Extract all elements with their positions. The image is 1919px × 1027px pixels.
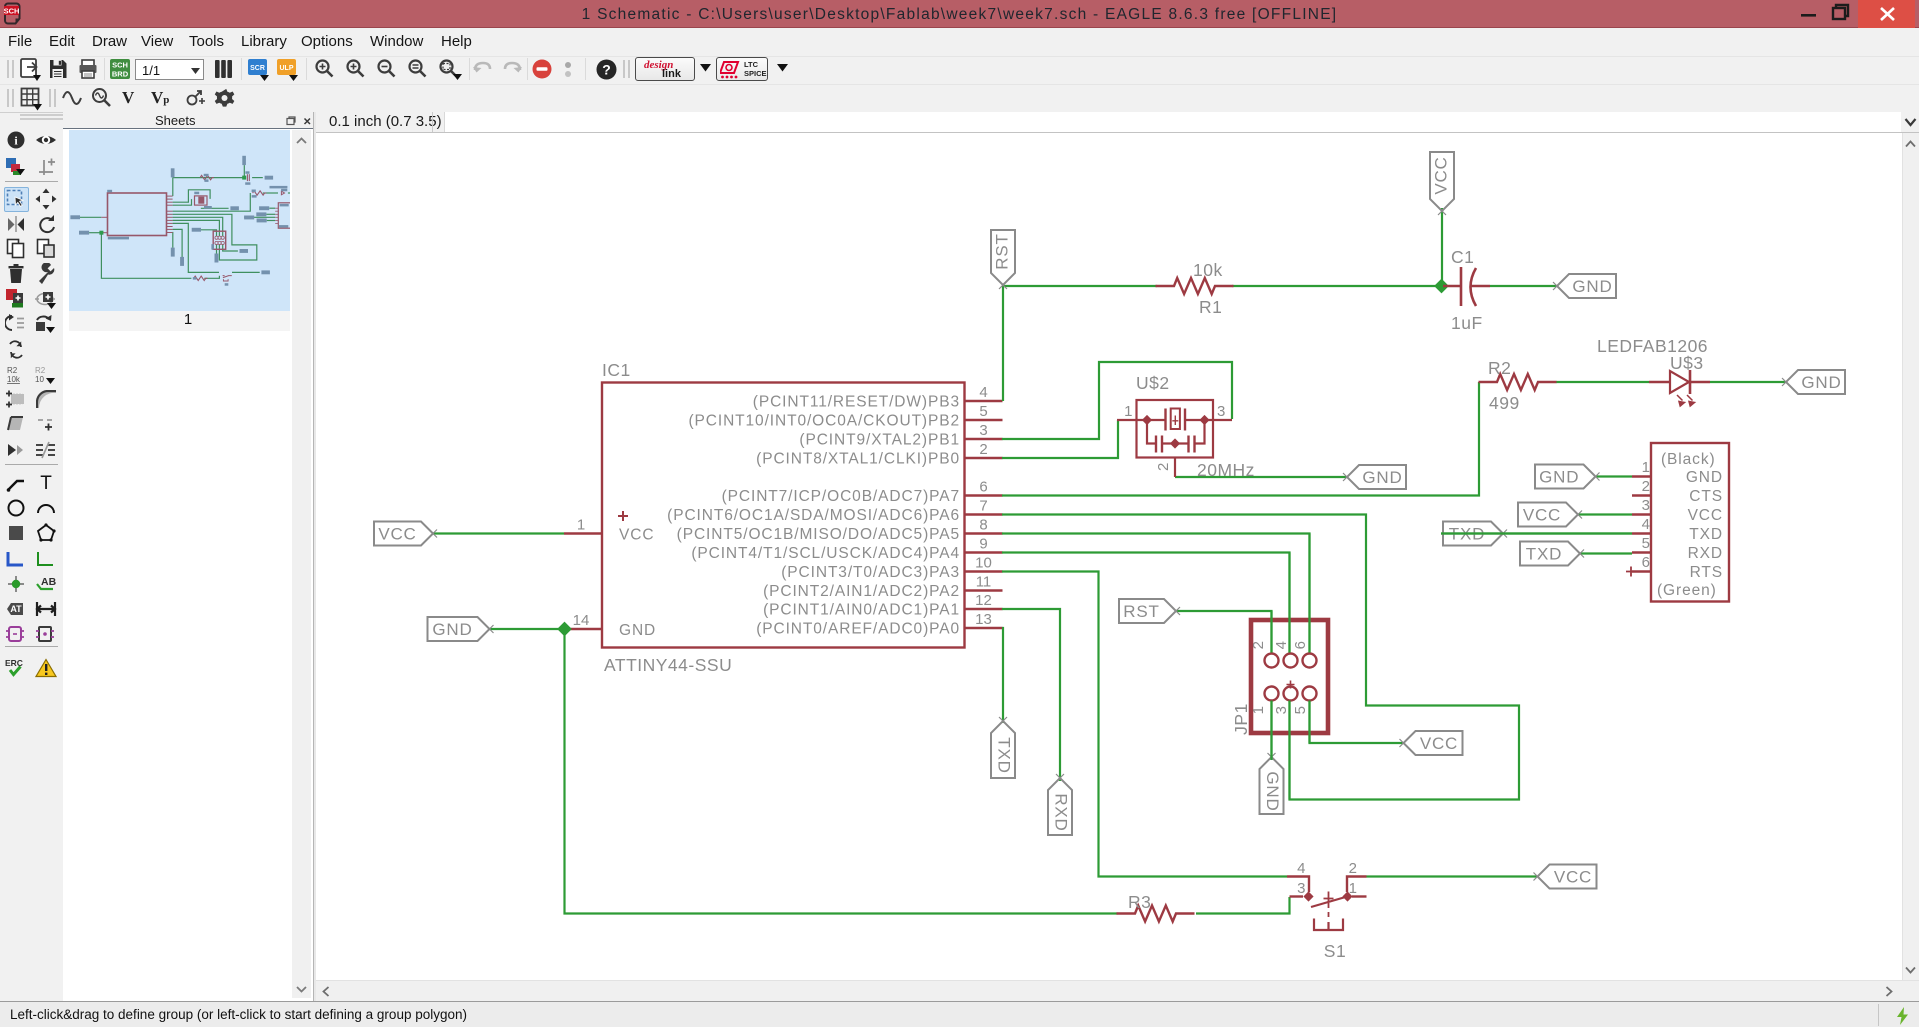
- pin 13 IC1 (PCINT0/AREF/ADC0)PA0: [756, 611, 1002, 638]
- flag TXD (FTDI pin5): [1520, 542, 1584, 566]
- svg-text:13: 13: [975, 611, 992, 628]
- supply flag GND (C1): [1553, 274, 1616, 298]
- svg-text:6: 6: [1642, 554, 1650, 571]
- left tool mirror: [6, 214, 26, 234]
- left tool delete: [7, 263, 25, 285]
- svg-text:GND: GND: [1263, 771, 1282, 811]
- wire net GND: resonator pin2 to flag: [1175, 476, 1346, 478]
- supply flag VCC (top): [1430, 152, 1454, 215]
- wire net GND down to R3: [565, 629, 1118, 914]
- svg-text:GND: GND: [1801, 373, 1841, 392]
- pin 3 FTDI VCC: [1632, 497, 1723, 524]
- svg-text:1: 1: [1642, 459, 1650, 476]
- flag TXD (FTDI pin4): [1443, 522, 1507, 546]
- svg-text:(PCINT6/OC1A/SDA/MOSI/ADC6)PA6: (PCINT6/OC1A/SDA/MOSI/ADC6)PA6: [667, 507, 960, 524]
- svg-text:(Black): (Black): [1661, 451, 1716, 468]
- toolbar zoom fit button: [314, 58, 336, 80]
- svg-text:R1: R1: [1199, 297, 1222, 317]
- supply flag GND (resonator): [1343, 465, 1406, 489]
- pin 6 FTDI plus mark: [1626, 567, 1636, 577]
- svg-text:(PCINT1/AIN0/ADC1)PA1: (PCINT1/AIN0/ADC1)PA1: [763, 602, 960, 619]
- left command toolbar: [0, 112, 63, 1002]
- wire wire RST drop into JP1 pin2 (overlay): [1270, 611, 1272, 653]
- left tool replace: [5, 312, 27, 334]
- svg-text:R2: R2: [1488, 358, 1511, 378]
- svg-text:VCC: VCC: [1420, 734, 1458, 753]
- wire wire SCK drop into JP1 pin4 (overlay): [1288, 553, 1290, 653]
- svg-text:JP1: JP1: [1231, 703, 1251, 735]
- svg-text:S1: S1: [1324, 941, 1346, 961]
- toolbar save button: [48, 58, 68, 80]
- left tool wire/line: [6, 473, 26, 493]
- pin 10 IC1 (PCINT3/T0/ADC3)PA3: [781, 555, 1002, 582]
- svg-text:7: 7: [979, 498, 987, 515]
- flag RST (top): [991, 230, 1015, 289]
- left toolbar separator 3: [5, 646, 58, 647]
- left toolbar separator 2: [5, 464, 58, 465]
- left tool pinswap: [6, 339, 26, 361]
- svg-text:(PCINT4/T1/SCL/USCK/ADC4)PA4: (PCINT4/T1/SCL/USCK/ADC4)PA4: [691, 545, 960, 562]
- wire net VCC: flag to junction: [1441, 208, 1443, 286]
- svg-text:ATTINY44-SSU: ATTINY44-SSU: [604, 655, 732, 675]
- svg-text:4: 4: [1297, 860, 1306, 877]
- svg-text:5: 5: [979, 403, 987, 420]
- wire net PA7 to R2: [1002, 382, 1479, 496]
- pin 4 IC1 (PCINT11/RESET/DW)PB3: [753, 384, 1003, 411]
- left tool smash: [5, 389, 27, 409]
- left tool invoke: [6, 441, 26, 459]
- svg-text:TXD: TXD: [1689, 526, 1723, 543]
- wire net S1 pin2 to VCC flag: [1367, 875, 1538, 877]
- svg-text:AT: AT: [10, 604, 22, 614]
- wire net TXD to FTDI pin4: [1441, 532, 1632, 534]
- toolbar redo button (disabled): [501, 60, 523, 80]
- left tool rotate: [36, 214, 56, 234]
- svg-text:4: 4: [979, 384, 987, 401]
- pin 11 IC1 (PCINT2/AIN1/ADC2)PA2: [763, 574, 1002, 601]
- svg-text:LEDFAB1206: LEDFAB1206: [1597, 336, 1708, 356]
- resistor R3: [1117, 906, 1195, 922]
- left tool slant: [6, 415, 26, 433]
- sheets scrollbar: [292, 130, 311, 998]
- title bar: [0, 0, 1919, 28]
- left toolbar separator 1: [5, 181, 58, 182]
- left tool label: [35, 574, 57, 594]
- pin 7 IC1 (PCINT6/OC1A/SDA/MOSI/ADC6)PA6: [667, 498, 1002, 525]
- svg-text:R3: R3: [1128, 892, 1151, 912]
- left tool text: [37, 473, 55, 493]
- svg-text:AB: AB: [41, 576, 57, 588]
- left tool ERC: [4, 657, 28, 679]
- wire net R2 to LED: [1556, 381, 1649, 383]
- toolbar settings gear button: [214, 87, 238, 111]
- left tool split: [36, 416, 56, 432]
- wire net JP1 pin5 to VCC flag: [1310, 701, 1404, 744]
- toolbar zoom in button: [345, 58, 367, 80]
- wire net RST: down to pin4: [1002, 286, 1004, 401]
- svg-text:(PCINT9/XTAL2)PB1: (PCINT9/XTAL2)PB1: [799, 432, 960, 449]
- canvas: [316, 133, 1902, 980]
- svg-text:VCC: VCC: [1431, 156, 1450, 194]
- wire net XTAL2: PB1 to resonator pin3: [1002, 362, 1232, 439]
- svg-text:T: T: [40, 473, 52, 493]
- supply flag VCC (FTDI): [1518, 503, 1582, 527]
- left tool align: [35, 441, 57, 459]
- svg-text:SCH: SCH: [112, 61, 128, 70]
- svg-text:GND: GND: [1362, 468, 1402, 487]
- svg-text:3: 3: [1217, 403, 1226, 420]
- junction GND pin14: [557, 622, 572, 637]
- svg-text:VCC: VCC: [619, 527, 654, 544]
- coordinate bar: [316, 112, 1919, 133]
- svg-text:(PCINT7/ICP/OC0B/ADC7)PA7: (PCINT7/ICP/OC0B/ADC7)PA7: [722, 488, 960, 505]
- wire net XTAL1: PB0 to resonator pin1: [1002, 420, 1118, 458]
- svg-text:?: ?: [602, 62, 611, 78]
- svg-text:(PCINT0/AREF/ADC0)PA0: (PCINT0/AREF/ADC0)PA0: [756, 621, 960, 638]
- panel divider: [313, 112, 316, 1002]
- svg-text:TXD: TXD: [1526, 545, 1562, 564]
- pin 3 IC1 (PCINT9/XTAL2)PB1: [799, 422, 1002, 449]
- left tool group (selected): [6, 189, 26, 209]
- svg-text:1: 1: [1250, 706, 1267, 715]
- svg-text:SCR: SCR: [250, 65, 265, 72]
- svg-text:4: 4: [1642, 516, 1650, 533]
- svg-text:3: 3: [979, 422, 987, 439]
- toolbar undo button (disabled): [472, 60, 494, 80]
- svg-text:U$3: U$3: [1670, 353, 1704, 373]
- svg-text:(PCINT3/T0/ADC3)PA3: (PCINT3/T0/ADC3)PA3: [781, 564, 960, 581]
- status bar: [0, 1001, 1919, 1027]
- wire wire JP1 pin5 down (overlay): [1308, 701, 1310, 744]
- right scrollbar: [1902, 133, 1919, 980]
- left tool show: [35, 130, 57, 150]
- svg-text:RST: RST: [992, 233, 1011, 269]
- svg-text:5: 5: [1292, 706, 1309, 715]
- supply flag VCC (JP1 pin5): [1400, 731, 1463, 755]
- wire net PA1 to RXD flag: [1002, 609, 1060, 781]
- wire net RST: flag to R1: [1003, 285, 1157, 287]
- switch S1: [1287, 877, 1367, 931]
- svg-text:11: 11: [976, 574, 992, 591]
- svg-text:3: 3: [1297, 880, 1306, 897]
- svg-text:IC1: IC1: [602, 360, 631, 380]
- svg-text:1: 1: [1124, 403, 1133, 420]
- svg-text:CTS: CTS: [1689, 488, 1723, 505]
- svg-text:TXD: TXD: [995, 737, 1014, 773]
- svg-text:12: 12: [975, 592, 992, 609]
- pin 6 IC1 (PCINT7/ICP/OC0B/ADC7)PA7: [722, 479, 1003, 506]
- svg-text:10: 10: [975, 555, 992, 572]
- toolbar open/import button: [20, 58, 42, 82]
- resistor R1: [1156, 278, 1234, 294]
- pin 5 FTDI RXD: [1632, 535, 1723, 562]
- svg-text:VCC: VCC: [1523, 506, 1561, 525]
- capacitor C1: [1443, 267, 1490, 306]
- wire net MOSI: PA6 to JP1 pin3: [1002, 515, 1519, 800]
- flag RST (JP1): [1119, 599, 1180, 623]
- svg-text:1uF: 1uF: [1451, 313, 1483, 333]
- svg-text:10k: 10k: [1193, 260, 1223, 280]
- toolbar probe settings button: [185, 88, 207, 108]
- wire net JP1 pin1 to GND flag: [1270, 701, 1272, 761]
- left tool errors: [35, 658, 57, 678]
- svg-text:1: 1: [1349, 880, 1358, 897]
- left tool gateswap: [34, 312, 58, 334]
- svg-text:BRD: BRD: [112, 70, 129, 79]
- svg-text:9: 9: [979, 536, 987, 553]
- svg-text:GND: GND: [1572, 277, 1612, 296]
- svg-text:14: 14: [573, 612, 590, 629]
- toolbar traffic-light status: [561, 59, 575, 81]
- toolbar SCH/BRD button: [109, 58, 131, 82]
- wire net PA0 to TXD flag: [1002, 628, 1003, 723]
- wire net TXD overlay over flag: [1441, 532, 1632, 534]
- wire net VCC flag to FTDI pin3: [1578, 513, 1632, 515]
- toolbars: [0, 56, 1919, 84]
- svg-text:(Green): (Green): [1657, 582, 1717, 599]
- svg-text:GND: GND: [619, 622, 656, 639]
- svg-text:(PCINT11/RESET/DW)PB3: (PCINT11/RESET/DW)PB3: [753, 394, 960, 411]
- bottom scrollbar: [316, 980, 1919, 1001]
- toolbar designlink dropdown: [700, 64, 712, 72]
- left tool net: [36, 549, 56, 569]
- toolbar grid button: [20, 87, 44, 111]
- left tool miter: [36, 390, 57, 409]
- menu bar: [0, 28, 1919, 56]
- toolbar ULP button: [277, 59, 301, 81]
- svg-text:(PCINT10/INT0/OC0A/CKOUT)PB2: (PCINT10/INT0/OC0A/CKOUT)PB2: [688, 413, 960, 430]
- toolbar library button: [213, 58, 235, 80]
- wire net SCK: PA4 to JP1 pin4: [1002, 553, 1290, 653]
- left tool name: [5, 365, 27, 385]
- toolbar ltcspice dropdown: [777, 64, 789, 72]
- wire net LED to GND flag: [1710, 381, 1785, 383]
- toolbar print button: [78, 58, 98, 80]
- left tool circle: [6, 498, 26, 518]
- svg-text:RST: RST: [1123, 602, 1159, 621]
- supply flag GND (LED): [1782, 370, 1845, 394]
- svg-text:RXD: RXD: [1688, 545, 1723, 562]
- svg-text:6: 6: [979, 479, 987, 496]
- toolbar simulate wave button: [62, 88, 84, 108]
- resistor R2: [1479, 374, 1557, 390]
- wire net TXD to FTDI pin5: [1580, 552, 1632, 554]
- svg-text:GND: GND: [432, 620, 472, 639]
- left tool change: [5, 288, 27, 310]
- svg-text:3: 3: [1642, 497, 1650, 514]
- supply flag GND (FTDI): [1535, 465, 1600, 489]
- wire net GND flag to FTDI pin1: [1596, 475, 1632, 477]
- left toolbar selected tool highlight: [4, 187, 29, 212]
- wire net MISO: PA5 to JP1 pin6: [1002, 534, 1310, 653]
- svg-text:6: 6: [1292, 641, 1309, 650]
- left tool rect: [7, 524, 25, 542]
- svg-text:2: 2: [979, 441, 987, 458]
- ic IC1 ATTINY44-SSU: [602, 383, 965, 648]
- svg-text:C1: C1: [1451, 247, 1474, 267]
- left tool bus: [6, 549, 26, 569]
- wire wire JP1 pin1 down (overlay): [1270, 701, 1272, 761]
- left tool mark: [36, 157, 56, 177]
- wire net R3 to S1 pin3: [1196, 897, 1290, 914]
- svg-text:R2: R2: [7, 366, 18, 375]
- wire net GND flag to pin14: [489, 628, 565, 630]
- junction RST/C1/VCC: [1434, 279, 1449, 294]
- svg-text:R2: R2: [35, 366, 46, 375]
- toolbar zoom select button: [438, 58, 464, 82]
- svg-text:2: 2: [1250, 641, 1267, 650]
- left tool attribute: [4, 599, 28, 619]
- svg-text:499: 499: [1489, 393, 1520, 413]
- toolbar SCR scripts button: [248, 59, 272, 81]
- svg-text:U$2: U$2: [1136, 373, 1170, 393]
- supply flag VCC (S1): [1534, 865, 1597, 889]
- svg-text:8: 8: [979, 517, 987, 534]
- toolbar zoom redraw button: [407, 58, 429, 80]
- pin 2 FTDI CTS: [1632, 478, 1723, 505]
- flag RXD (PA1): [1048, 774, 1072, 835]
- sheet thumbnail: [69, 130, 290, 311]
- connector FTDI header (Black)/(Green): [1651, 443, 1729, 602]
- svg-text:ULP: ULP: [280, 65, 294, 72]
- pin 8 IC1 (PCINT5/OC1B/MISO/DO/ADC5)PA5: [677, 517, 1003, 544]
- svg-text:VCC: VCC: [1554, 868, 1592, 887]
- toolbar zoom out button: [376, 58, 398, 80]
- svg-text:3: 3: [1273, 706, 1290, 715]
- pin 1 FTDI GND: [1632, 459, 1723, 486]
- svg-text:5: 5: [1642, 535, 1650, 552]
- left tool value: [34, 365, 58, 385]
- toolbar help button: [596, 59, 618, 81]
- svg-text:VCC: VCC: [1688, 507, 1723, 524]
- left tool pin array 2: [35, 624, 57, 644]
- svg-text:1: 1: [577, 517, 585, 534]
- pin 1 IC1 VCC: [564, 511, 654, 544]
- wire wire MISO drop into JP1 pin6 (overlay): [1308, 534, 1310, 653]
- pin 14 IC1 GND: [564, 612, 656, 639]
- svg-text:GND: GND: [1686, 469, 1723, 486]
- svg-text:2: 2: [1155, 462, 1172, 471]
- wire net GND: C1 to GND flag: [1490, 285, 1556, 287]
- left tool display layers: [5, 156, 27, 178]
- wire net VCC flag to pin1: [433, 532, 564, 534]
- svg-text:20MHz: 20MHz: [1197, 460, 1255, 480]
- pin 2 IC1 (PCINT8/XTAL1/CLKI)PB0: [756, 441, 1002, 468]
- left tool add part: [34, 288, 58, 310]
- supply flag GND (JP1 pin1): [1260, 753, 1284, 814]
- pin 6 FTDI RTS: [1632, 554, 1723, 581]
- pin 12 IC1 (PCINT1/AIN0/ADC1)PA1: [763, 592, 1002, 619]
- wire net PA3 to S1 pin4: [1002, 572, 1287, 877]
- svg-text:(PCINT5/OC1B/MISO/DO/ADC5)PA5: (PCINT5/OC1B/MISO/DO/ADC5)PA5: [677, 526, 960, 543]
- wire net RST: R1 to C1 junction: [1232, 285, 1441, 287]
- left tool junction: [6, 574, 26, 594]
- svg-text:10: 10: [35, 375, 44, 384]
- svg-text:10k: 10k: [7, 375, 21, 384]
- left tool polygon: [36, 523, 56, 543]
- app icon SCH: [4, 2, 22, 25]
- left tool dimension: [35, 600, 57, 618]
- flag TXD (PA0): [991, 717, 1015, 778]
- sheets panel: [63, 112, 315, 1002]
- left tool move: [35, 188, 57, 210]
- left tool pin array 1: [5, 624, 27, 644]
- svg-text:4: 4: [1273, 641, 1290, 650]
- left tool fix/wrench: [35, 263, 57, 285]
- supply flag VCC (pin1): [374, 522, 437, 546]
- supply flag GND (pin14): [428, 617, 494, 641]
- svg-text:2: 2: [1349, 860, 1358, 877]
- wire net RST flag to JP1 pin2: [1176, 611, 1272, 653]
- pin 9 IC1 (PCINT4/T1/SCL/USCK/ADC4)PA4: [691, 536, 1002, 563]
- left tool arc: [36, 500, 56, 516]
- svg-text:(PCINT2/AIN1/ADC2)PA2: (PCINT2/AIN1/ADC2)PA2: [763, 583, 960, 600]
- svg-text:RXD: RXD: [1052, 793, 1071, 831]
- pin 5 IC1 (PCINT10/INT0/OC0A/CKOUT)PB2: [688, 403, 1002, 430]
- connector JP1 ISP header: [1251, 620, 1328, 733]
- left tool copy: [6, 238, 26, 260]
- svg-text:VCC: VCC: [378, 525, 416, 544]
- svg-text:2: 2: [1642, 478, 1650, 495]
- svg-text:(PCINT8/XTAL1/CLKI)PB0: (PCINT8/XTAL1/CLKI)PB0: [756, 451, 960, 468]
- led U$3 LEDFAB1206: [1649, 370, 1710, 406]
- pin 4 FTDI TXD: [1632, 516, 1723, 543]
- svg-text:RTS: RTS: [1690, 564, 1723, 581]
- toolbar stop button: [532, 59, 554, 81]
- svg-text:GND: GND: [1539, 468, 1579, 487]
- toolbar probe button: [91, 87, 113, 109]
- resonator U$2 20MHz: [1117, 400, 1232, 477]
- wire wire JP1 pin3 down (overlay): [1288, 701, 1290, 800]
- left tool paste: [36, 238, 56, 260]
- left tool info: [6, 130, 26, 150]
